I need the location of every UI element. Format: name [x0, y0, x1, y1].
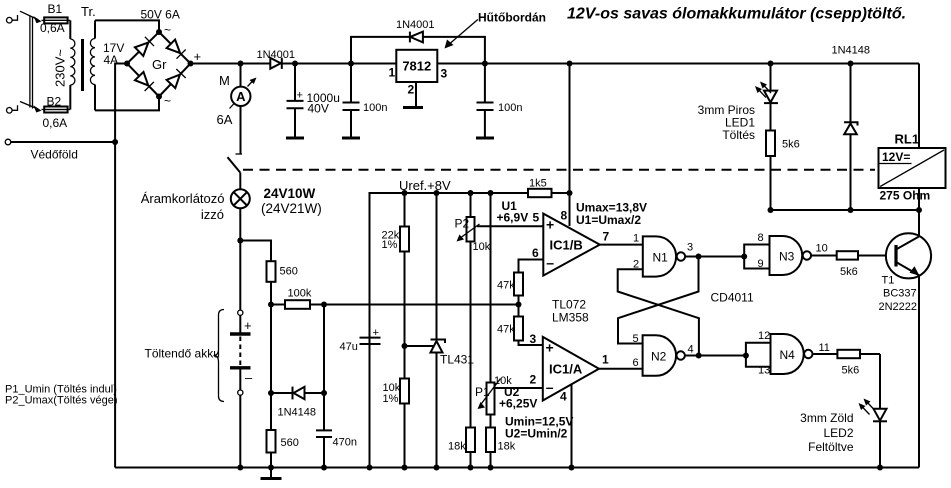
- svg-text:1N4148: 1N4148: [278, 407, 317, 419]
- LED2 diode: [873, 409, 887, 468]
- resistor R_5k6 N3: [811, 251, 886, 259]
- relay RL1: [879, 148, 946, 188]
- node 100n-2 tap: [482, 61, 488, 67]
- wire rail to relay: [918, 64, 920, 149]
- svg-text:+: +: [244, 318, 252, 333]
- resistor R_18k second: [486, 428, 495, 468]
- svg-text:N1: N1: [653, 251, 669, 265]
- wire ref to TL431: [405, 345, 438, 347]
- wire P1 wiper to pin2: [495, 387, 543, 389]
- svg-text:12: 12: [758, 330, 770, 342]
- svg-text:47u: 47u: [340, 341, 358, 353]
- switch S2: [228, 154, 243, 173]
- pin 4 wire V-: [571, 384, 573, 467]
- wire U1 out to N1 pin1: [600, 244, 643, 246]
- svg-text:1: 1: [633, 233, 639, 245]
- node earth junction: [112, 139, 118, 145]
- wire +12V down to Uref node: [569, 64, 571, 194]
- resistor R_560 upper: [267, 261, 276, 393]
- svg-text:8: 8: [758, 232, 764, 244]
- node ammeter tap: [238, 61, 244, 67]
- svg-text:Uref.+8V: Uref.+8V: [399, 178, 451, 193]
- svg-text:5k6: 5k6: [840, 266, 858, 278]
- wire battery column top: [240, 241, 271, 262]
- wire 100k to 47k midpoint: [324, 304, 519, 306]
- svg-text:3mm Zöld: 3mm Zöld: [800, 411, 853, 425]
- svg-text:100k: 100k: [288, 288, 312, 300]
- svg-text:TL072: TL072: [552, 298, 586, 312]
- battery dashed cells: [239, 337, 241, 366]
- wire N1 pin2 cross-coupling: [618, 269, 699, 355]
- battery B+ plate: [230, 315, 251, 334]
- svg-text:6A: 6A: [217, 112, 233, 127]
- fuse B1: [42, 17, 71, 23]
- wire LED2 column: [879, 354, 881, 409]
- transformer core: [81, 39, 84, 91]
- node 1000u tap: [292, 61, 298, 67]
- resistor R_10k 1%: [400, 379, 409, 468]
- svg-text:4: 4: [560, 390, 567, 404]
- svg-text:Védőföld: Védőföld: [31, 148, 78, 162]
- node diode left: [268, 390, 274, 396]
- node bottom rail dots: [237, 465, 883, 471]
- svg-text:7812: 7812: [402, 59, 431, 74]
- potentiometer P1 10k: [478, 193, 501, 428]
- resistor R_22k: [400, 193, 409, 379]
- switch coupling bar: [30, 16, 33, 109]
- svg-text:1%: 1%: [383, 393, 399, 405]
- svg-text:+6,25V: +6,25V: [499, 397, 537, 411]
- svg-text:7: 7: [603, 230, 610, 244]
- terminal L1 input: [7, 15, 18, 23]
- battery terminal bottom: [238, 390, 243, 395]
- svg-text:+: +: [373, 327, 379, 339]
- nand gate N4: [771, 334, 813, 374]
- svg-text:–: –: [245, 370, 253, 385]
- TL431 shunt regulator: [431, 193, 446, 468]
- ground C2: [342, 137, 360, 140]
- svg-text:Töltés: Töltés: [722, 128, 755, 142]
- battery terminal top: [238, 310, 243, 315]
- wire Uref +8V rail: [370, 193, 529, 468]
- svg-text:0,6A: 0,6A: [43, 116, 68, 130]
- wire N1 out: [685, 256, 744, 258]
- wire ammeter to switch: [240, 106, 242, 154]
- svg-text:P2_Umax(Töltés vége): P2_Umax(Töltés vége): [5, 395, 118, 407]
- LED2 arrows: [859, 399, 875, 415]
- svg-text:47k: 47k: [497, 324, 515, 336]
- wire secondary to bridge bottom: [95, 97, 159, 111]
- svg-text:1N4001: 1N4001: [257, 49, 296, 61]
- wire bridge minus to left frame: [115, 64, 127, 468]
- svg-text:(24V21W): (24V21W): [261, 201, 322, 216]
- nand gate N3: [770, 236, 812, 275]
- svg-text:Töltendő akku: Töltendő akku: [145, 347, 220, 361]
- svg-text:T1: T1: [882, 275, 895, 287]
- node battery top branch: [237, 238, 243, 244]
- wire battery minus to rail: [239, 395, 241, 467]
- svg-text:~: ~: [164, 94, 171, 108]
- LED1 diode: [764, 64, 778, 104]
- svg-text:18k: 18k: [448, 441, 466, 453]
- svg-text:560: 560: [281, 437, 299, 449]
- bridge rectifier Gr outline: [127, 32, 191, 97]
- ground C1: [286, 137, 304, 140]
- regulator U3 7812: [396, 50, 437, 82]
- resistor R_5k6 N4: [813, 350, 881, 358]
- svg-text:5k6: 5k6: [842, 365, 860, 377]
- ground main: [261, 468, 282, 479]
- svg-text:U2=Umin/2: U2=Umin/2: [505, 427, 568, 441]
- wire P2 wiper to pin5: [477, 225, 544, 227]
- svg-text:0,6A: 0,6A: [40, 21, 65, 35]
- svg-text:BC337: BC337: [883, 288, 917, 300]
- node TL431 ref: [402, 343, 408, 349]
- svg-text:+: +: [194, 49, 202, 64]
- svg-text:+6,9V: +6,9V: [497, 211, 529, 225]
- svg-text:3: 3: [530, 332, 537, 346]
- svg-text:N2: N2: [651, 350, 667, 364]
- label Hutobordan with arrow: [445, 11, 547, 49]
- node 100n-1 tap: [348, 61, 354, 67]
- diode D5 1N4001 series: [270, 58, 282, 69]
- ammeter M: [230, 78, 257, 109]
- bridge diode D3: [135, 72, 154, 91]
- svg-text:50V 6A: 50V 6A: [141, 8, 180, 22]
- capacitor C2 100n: [343, 64, 360, 138]
- resistor R_1k5: [528, 189, 570, 197]
- nand gate N1: [643, 236, 685, 276]
- resistor R_5k6 LED1: [766, 103, 775, 210]
- wire N1 out cross-coupling to N2 pin5: [618, 257, 699, 344]
- wire 470n column upper: [323, 305, 325, 394]
- svg-text:A: A: [236, 89, 246, 104]
- svg-text:6: 6: [633, 357, 639, 369]
- diode D7 1N4148: [271, 387, 324, 400]
- svg-text:100n: 100n: [363, 102, 387, 114]
- bridge diode D2: [167, 40, 186, 59]
- switch S1a blade: [20, 11, 42, 23]
- capacitor C5 470n: [316, 393, 332, 468]
- LED1 arrows: [755, 82, 771, 98]
- capacitor C4 47u: [360, 338, 381, 344]
- svg-text:4: 4: [688, 344, 694, 356]
- svg-text:Feltöltve: Feltöltve: [808, 440, 854, 454]
- resistor R_100k: [271, 300, 324, 309]
- svg-text:IC1/A: IC1/A: [549, 362, 583, 377]
- svg-text:1%: 1%: [382, 239, 398, 251]
- svg-text:100n: 100n: [498, 102, 522, 114]
- svg-text:~: ~: [164, 23, 171, 37]
- svg-text:5: 5: [633, 333, 639, 345]
- svg-text:10k: 10k: [473, 241, 491, 253]
- svg-text:18k: 18k: [498, 441, 516, 453]
- svg-text:47k: 47k: [497, 280, 515, 292]
- svg-text:24V10W: 24V10W: [264, 186, 316, 201]
- node 100k tap: [268, 302, 274, 308]
- transformer Tr secondary winding: [90, 20, 95, 110]
- svg-text:+: +: [297, 90, 303, 102]
- node 47k midpoint: [516, 302, 522, 308]
- N3 input bracket: [741, 245, 769, 269]
- svg-text:230V~: 230V~: [53, 49, 68, 87]
- brace akku: [214, 310, 225, 402]
- node Uref dots: [402, 190, 573, 196]
- diode D8 1N4148 flyback: [844, 64, 858, 211]
- svg-text:Áramkorlátozó: Áramkorlátozó: [141, 191, 225, 206]
- svg-text:10: 10: [816, 243, 828, 255]
- svg-text:B1: B1: [48, 2, 63, 16]
- node N2 out: [696, 353, 702, 359]
- svg-text:+: +: [546, 340, 554, 356]
- wire bypass diode loop: [351, 37, 485, 64]
- svg-text:3: 3: [441, 67, 448, 81]
- svg-text:2: 2: [530, 373, 537, 387]
- svg-text:M: M: [219, 73, 230, 88]
- wire main +12V top rail: [191, 63, 920, 65]
- wire 47k to pin3: [519, 341, 543, 346]
- svg-text:P1: P1: [475, 385, 490, 399]
- wire relay drive node: [771, 209, 920, 211]
- wire bottom rail: [115, 467, 919, 469]
- svg-text:1k5: 1k5: [529, 178, 547, 190]
- svg-text:LM358: LM358: [552, 311, 589, 325]
- svg-text:470n: 470n: [333, 437, 357, 449]
- node LED1 tap: [768, 61, 774, 67]
- node flyback tap: [848, 61, 854, 67]
- svg-text:275 Ohm: 275 Ohm: [880, 189, 931, 203]
- resistor R_560 lower: [267, 393, 276, 468]
- op-amp U2 IC1/A: [543, 337, 599, 401]
- svg-text:LED2: LED2: [823, 426, 853, 440]
- resistor R_18k first: [466, 428, 475, 468]
- node Uref/1k5 junction on main rail: [567, 61, 573, 67]
- fuse B2: [42, 107, 71, 113]
- svg-text:Gr: Gr: [152, 57, 167, 72]
- node relay drive dots: [768, 207, 923, 213]
- potentiometer P2 10k: [457, 193, 480, 428]
- svg-text:8: 8: [561, 209, 568, 223]
- svg-text:RL1: RL1: [895, 132, 920, 147]
- svg-text:1N4148: 1N4148: [832, 45, 871, 57]
- svg-text:1N4001: 1N4001: [396, 19, 435, 31]
- svg-text:Tr.: Tr.: [81, 4, 96, 19]
- op-amp U1 IC1/B: [543, 214, 600, 276]
- wire N2 out: [685, 355, 746, 357]
- svg-text:1: 1: [389, 66, 396, 80]
- wire battery stem: [239, 241, 241, 311]
- svg-text:B2: B2: [47, 95, 62, 109]
- battery B- plate: [230, 368, 251, 390]
- svg-text:CD4011: CD4011: [711, 291, 754, 305]
- wire pin6 feedback to 47k divider: [519, 260, 544, 273]
- svg-text:1: 1: [602, 353, 609, 367]
- svg-text:IC1/B: IC1/B: [550, 238, 583, 253]
- wire emitter down: [918, 275, 920, 467]
- transistor T1: [886, 233, 931, 278]
- svg-text:2N2222: 2N2222: [879, 301, 918, 313]
- wire 7812 pin2 to ground: [415, 82, 417, 107]
- wire switch to lamp: [239, 173, 241, 190]
- resistor R_47k upper: [514, 273, 523, 317]
- switch S1b blade: [20, 102, 42, 113]
- wire secondary to bridge top: [95, 20, 159, 32]
- bridge diode D1: [135, 37, 154, 56]
- svg-text:P2: P2: [455, 217, 470, 231]
- terminal L2 input: [7, 105, 18, 113]
- wire rail to ammeter: [240, 64, 242, 87]
- svg-text:izzó: izzó: [201, 207, 224, 222]
- ground C3: [476, 137, 494, 140]
- terminal earth: [5, 139, 115, 145]
- svg-text:N4: N4: [780, 348, 796, 362]
- node bridge corners dots: [124, 29, 194, 100]
- svg-text:13: 13: [758, 365, 770, 377]
- diode D6 1N4001 bypass: [410, 32, 423, 43]
- node diode right: [321, 390, 327, 396]
- wire relay to drive node: [918, 188, 920, 210]
- pin 8 wire V+: [569, 193, 571, 226]
- svg-text:12V-os savas ólomakkumulátor (: 12V-os savas ólomakkumulátor (csepp)tölt…: [567, 6, 906, 23]
- lamp bulb: [231, 189, 250, 208]
- svg-text:U1=Umax/2: U1=Umax/2: [576, 213, 641, 227]
- ground 7812: [403, 106, 423, 109]
- svg-text:+: +: [546, 217, 554, 233]
- nand gate N2: [643, 335, 685, 376]
- dashed separator line: [243, 169, 875, 171]
- svg-text:–: –: [546, 379, 554, 395]
- wire collector up: [918, 210, 920, 237]
- capacitor C1 1000u 40V: [287, 64, 304, 138]
- svg-text:9: 9: [758, 258, 764, 270]
- svg-text:TL431: TL431: [440, 353, 474, 367]
- bridge diode D4: [167, 69, 186, 88]
- capacitor C3 100n: [477, 64, 494, 138]
- svg-text:5k6: 5k6: [782, 139, 800, 151]
- resistor R_47k lower: [514, 317, 523, 341]
- svg-text:40V: 40V: [308, 102, 329, 116]
- svg-text:2: 2: [408, 83, 415, 97]
- N4 input bracket: [743, 343, 771, 367]
- svg-text:3: 3: [687, 242, 693, 254]
- svg-text:12V=: 12V=: [882, 150, 910, 164]
- node N1 out: [696, 254, 702, 260]
- svg-text:–: –: [546, 255, 554, 271]
- svg-text:560: 560: [280, 266, 298, 278]
- node 100k right: [321, 302, 327, 308]
- svg-text:6: 6: [532, 246, 539, 260]
- svg-text:5: 5: [533, 211, 540, 225]
- transformer Tr primary winding: [70, 20, 75, 109]
- wire U2 out to N2 pin6: [599, 368, 643, 370]
- svg-text:N3: N3: [779, 250, 795, 264]
- svg-text:11: 11: [819, 342, 830, 354]
- wire lamp to battery node: [239, 208, 241, 240]
- svg-text:Hűtőbordán: Hűtőbordán: [478, 11, 546, 25]
